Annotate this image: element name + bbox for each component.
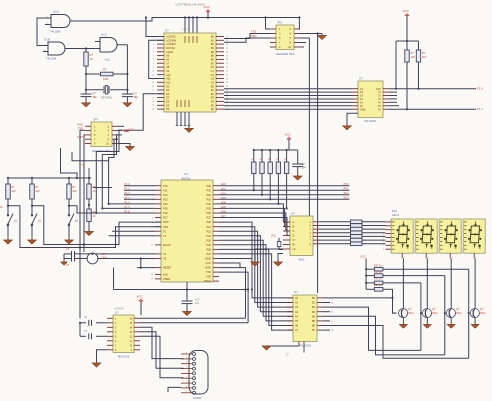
svg-text:BI: BI [293,244,296,247]
svg-text:12T6T963LL/44-24(H): 12T6T963LL/44-24(H) [175,3,205,7]
svg-text:4511: 4511 [298,258,305,262]
svg-text:9: 9 [186,391,187,393]
svg-text:P01: P01 [206,188,211,192]
svg-text:VCC: VCC [105,58,111,62]
svg-text:74LS245: 74LS245 [299,344,311,348]
svg-text:P07: P07 [206,216,211,220]
svg-text:3: 3 [428,257,429,259]
svg-text:C1: C1 [211,69,215,73]
svg-text:17: 17 [152,97,154,99]
svg-text:3: 3 [383,230,384,232]
svg-text:5: 5 [383,237,384,239]
svg-text:11: 11 [152,75,154,77]
svg-text:C: C [293,230,295,233]
svg-text:B1: B1 [211,38,215,42]
svg-text:P04: P04 [206,202,211,206]
svg-text:4u7: 4u7 [195,302,200,305]
svg-text:D: D [293,235,295,238]
svg-text:LED-4: LED-4 [392,213,400,217]
svg-text:A5: A5 [166,54,170,58]
svg-text:U?: U? [165,29,169,33]
svg-text:3: 3 [186,362,187,364]
svg-text:DS?: DS? [392,209,398,213]
svg-text:P22: P22 [206,229,211,233]
svg-text:EA/VP: EA/VP [163,243,171,247]
svg-text:P11: P11 [163,188,168,192]
svg-text:E0: E0 [211,84,215,88]
svg-text:R2? 1K: R2? 1K [374,284,382,287]
svg-text:+: + [87,252,89,256]
svg-text:6Y: 6Y [378,108,381,111]
svg-text:P1.6: P1.6 [125,210,131,213]
svg-text:B2: B2 [211,42,215,46]
svg-text:P1.5: P1.5 [125,206,131,209]
svg-text:RXD: RXD [206,266,212,270]
svg-text:VCC: VCC [79,163,85,167]
svg-text:A11: A11 [166,77,171,81]
svg-text:ALE: ALE [163,273,168,277]
svg-text:10K: 10K [35,190,40,193]
svg-text:CRYSTAL: CRYSTAL [101,96,113,100]
svg-text:P27: P27 [206,252,211,256]
svg-text:18: 18 [152,101,154,103]
svg-text:C3: C3 [211,77,215,81]
svg-text:B5: B5 [211,54,215,58]
svg-text:26: 26 [226,90,228,92]
svg-text:A12: A12 [166,80,171,84]
svg-text:R2? 1K: R2? 1K [374,271,382,274]
svg-text:9012: 9012 [480,312,486,315]
svg-text:P26: P26 [206,248,211,252]
svg-text:1: 1 [186,352,187,354]
svg-text:E4: E4 [211,100,215,104]
svg-text:35: 35 [226,55,228,57]
svg-text:LE: LE [293,248,296,251]
svg-text:10K: 10K [411,55,416,59]
svg-text:10K: 10K [11,190,16,193]
svg-text:C4: C4 [211,80,215,84]
svg-text:LT: LT [293,239,296,242]
svg-text:34: 34 [226,59,228,61]
svg-text:A8: A8 [166,65,170,69]
svg-text:6: 6 [186,377,187,379]
svg-text:74LS08: 74LS08 [50,30,61,34]
svg-text:4: 4 [186,367,187,369]
svg-text:9012: 9012 [432,312,438,315]
svg-text:P12: P12 [163,193,168,197]
svg-text:30: 30 [226,75,228,77]
svg-text:P06: P06 [206,211,211,215]
svg-text:P20: P20 [206,220,211,224]
svg-text:8: 8 [186,386,187,388]
svg-text:TXD: TXD [206,270,211,274]
svg-text:RXD: RXD [78,122,84,126]
svg-text:89C52: 89C52 [182,176,191,180]
svg-text:PSEN: PSEN [204,279,211,283]
svg-text:LCD/RW: LCD/RW [166,38,177,42]
svg-text:P0.3: P0.3 [344,197,350,200]
svg-text:37: 37 [226,48,228,50]
svg-text:Q?: Q? [456,308,460,311]
svg-text:3: 3 [153,44,154,46]
svg-text:104: 104 [302,167,307,170]
svg-text:VCC: VCC [128,128,135,132]
svg-text:P03: P03 [206,197,211,201]
svg-text:7: 7 [186,382,187,384]
svg-text:8: 8 [383,249,384,251]
svg-text:E5: E5 [211,103,215,107]
svg-text:19: 19 [152,105,154,107]
svg-text:31: 31 [151,245,153,247]
svg-text:VCC: VCC [403,9,410,13]
svg-text:D4: D4 [166,100,170,104]
svg-text:D5: D5 [166,103,170,107]
svg-text:P0.2: P0.2 [344,192,350,195]
svg-text:D2: D2 [166,92,170,96]
svg-text:P05: P05 [206,207,211,211]
svg-text:32: 32 [226,67,228,69]
svg-text:P1.3: P1.3 [125,197,131,200]
svg-text:JP?: JP? [93,118,99,122]
svg-text:2: 2 [186,357,187,359]
svg-text:R?: R? [422,51,426,55]
svg-text:E6: E6 [211,107,215,111]
svg-text:9012: 9012 [456,312,462,315]
svg-text:P25: P25 [206,243,211,247]
svg-text:U?: U? [291,212,295,216]
svg-text:27: 27 [226,86,228,88]
svg-text:P02: P02 [206,193,211,197]
svg-text:R2? 1K: R2? 1K [374,278,382,281]
svg-text:2: 2 [383,226,384,228]
svg-text:DAT/A0: DAT/A0 [166,46,175,50]
svg-text:MAX232: MAX232 [118,355,130,359]
svg-text:CS/A1: CS/A1 [166,50,174,54]
svg-text:6: 6 [153,55,154,57]
svg-text:LCD/RS: LCD/RS [166,35,176,39]
svg-text:5: 5 [153,52,154,54]
svg-text:D3: D3 [166,96,170,100]
svg-text:B4: B4 [211,50,215,54]
svg-text:74LS08: 74LS08 [46,57,57,61]
svg-text:1K: 1K [93,190,96,193]
svg-text:U?: U? [359,77,363,81]
svg-text:P0.1: P0.1 [344,187,350,190]
svg-text:C2: C2 [211,73,215,77]
svg-text:P23: P23 [206,234,211,238]
svg-text:E2: E2 [211,92,215,96]
svg-text:P17: P17 [163,216,168,220]
svg-text:6: 6 [383,241,384,243]
svg-text:30p: 30p [93,96,98,99]
svg-text:P15: P15 [163,207,168,211]
svg-text:R?: R? [90,53,94,57]
svg-text:R2? 1K: R2? 1K [374,265,382,268]
svg-text:B6: B6 [211,58,215,62]
svg-text:E1: E1 [211,88,215,92]
svg-text:28: 28 [226,82,228,84]
svg-text:B0: B0 [211,35,215,39]
svg-text:U1A: U1A [53,10,59,14]
svg-text:8: 8 [152,217,153,219]
svg-text:3: 3 [452,257,453,259]
svg-text:TXD: TXD [251,30,256,34]
svg-text:5: 5 [186,372,187,374]
svg-text:Q?: Q? [408,308,412,311]
svg-text:10K: 10K [72,190,77,193]
svg-text:6: 6 [152,208,153,210]
svg-text:LCD/EN: LCD/EN [166,42,176,46]
svg-text:10uF: 10uF [101,257,107,260]
svg-text:INT1: INT1 [163,225,169,229]
svg-text:R?: R? [411,51,415,55]
svg-text:P1.0: P1.0 [477,87,483,91]
svg-text:B3: B3 [211,46,215,50]
svg-text:VCC: VCC [271,235,276,238]
svg-text:P16: P16 [163,211,168,215]
svg-text:33: 33 [226,63,228,65]
svg-text:P14: P14 [163,202,168,206]
svg-text:COM1: COM1 [193,396,202,400]
svg-text:31: 31 [226,71,228,73]
svg-text:P0.0: P0.0 [344,183,350,186]
svg-text:U1B: U1B [44,38,50,42]
svg-text:30: 30 [151,274,153,276]
svg-text:20: 20 [152,109,154,111]
svg-text:P21: P21 [206,225,211,229]
svg-text:9012: 9012 [408,312,414,315]
svg-text:C0: C0 [211,65,215,69]
svg-text:13: 13 [152,82,154,84]
svg-text:GND: GND [205,257,211,261]
svg-text:P13: P13 [163,197,168,201]
svg-text:9: 9 [153,67,154,69]
svg-text:8: 8 [153,63,154,65]
svg-text:7: 7 [153,59,154,61]
svg-text:E3: E3 [211,96,215,100]
svg-text:9 8 7 6: 9 8 7 6 [182,29,189,31]
svg-text:U?: U? [294,290,298,294]
svg-text:10: 10 [152,71,154,73]
svg-text:A6: A6 [166,58,170,62]
svg-text:74LS245: 74LS245 [364,119,376,123]
svg-text:36: 36 [226,52,228,54]
svg-text:X1: X1 [163,252,167,256]
svg-text:30p: 30p [134,96,139,99]
svg-text:7: 7 [383,245,384,247]
svg-text:A10: A10 [166,73,171,77]
svg-text:1K: 1K [90,57,93,61]
svg-text:P1.0: P1.0 [125,183,131,186]
svg-text:38: 38 [226,44,228,46]
svg-text:P10: P10 [163,184,168,188]
svg-text:R?: R? [103,68,107,72]
svg-text:15: 15 [152,90,154,92]
svg-text:A9: A9 [166,69,170,73]
svg-text:A7: A7 [166,61,170,65]
svg-text:HEADER 5X2: HEADER 5X2 [276,52,295,56]
svg-text:P00: P00 [206,184,211,188]
svg-text:VCC: VCC [285,133,292,137]
svg-text:4K7: 4K7 [422,55,427,59]
svg-text:P1.1: P1.1 [477,107,483,111]
svg-text:P1.1: P1.1 [125,188,131,191]
svg-text:JP2: JP2 [277,21,283,25]
svg-text:D6: D6 [166,107,170,111]
svg-text:10M: 10M [103,77,108,81]
svg-text:PSEN: PSEN [163,277,170,281]
svg-text:P1.2: P1.2 [125,192,131,195]
svg-text:7: 7 [152,213,153,215]
svg-text:RESET: RESET [163,266,172,270]
svg-text:5: 5 [152,204,153,206]
svg-text:U?: U? [115,311,119,315]
svg-text:4: 4 [383,233,384,235]
svg-text:B7: B7 [211,61,215,65]
svg-text:ALE: ALE [206,275,211,279]
svg-text:VCC: VCC [204,5,211,9]
svg-text:D0: D0 [166,84,170,88]
svg-text:1: 1 [383,222,384,224]
svg-text:VCC: VCC [206,261,212,265]
svg-text:14: 14 [152,86,154,88]
svg-text:U1C: U1C [101,33,108,37]
svg-text:INT0: INT0 [163,220,169,224]
svg-text:VCC: VCC [360,255,366,259]
svg-text:D1: D1 [166,88,170,92]
svg-text:3: 3 [476,257,477,259]
svg-text:4: 4 [153,48,154,50]
svg-text:VCC: VCC [137,295,144,299]
svg-text:RXD: RXD [251,34,257,38]
svg-text:29: 29 [226,78,228,80]
svg-text:X2: X2 [163,257,167,261]
svg-text:29: 29 [151,279,153,281]
svg-text:P24: P24 [206,238,211,242]
svg-text:GND: GND [360,108,366,111]
svg-text:1K: 1K [93,215,96,218]
svg-text:P1.4: P1.4 [125,201,131,204]
